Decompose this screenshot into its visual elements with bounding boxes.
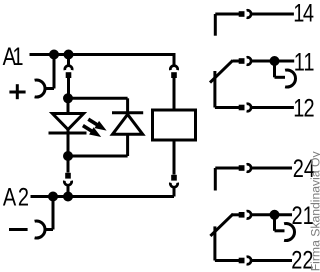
svg-text:A1: A1 (3, 43, 24, 71)
svg-text:12: 12 (293, 95, 314, 123)
svg-text:14: 14 (293, 0, 314, 27)
svg-text:A2: A2 (3, 183, 29, 211)
svg-text:11: 11 (294, 48, 315, 76)
svg-text:Firma Skandinavia Oy: Firma Skandinavia Oy (308, 151, 320, 272)
